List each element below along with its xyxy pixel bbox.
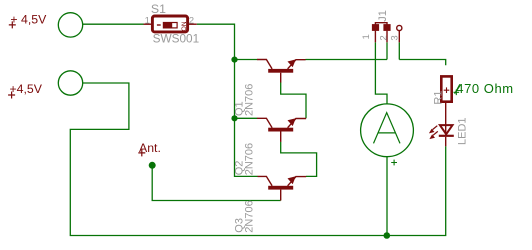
- svg-text:1: 1: [361, 34, 372, 39]
- svg-text:2: 2: [378, 35, 389, 40]
- svg-text:LED1: LED1: [456, 117, 468, 145]
- svg-text:R1: R1: [432, 91, 444, 105]
- svg-text:2N706: 2N706: [244, 143, 256, 175]
- svg-text:2N706: 2N706: [244, 84, 256, 116]
- svg-text:3: 3: [390, 35, 401, 40]
- svg-text:2: 2: [189, 15, 194, 26]
- svg-text:+ 4,5V: + 4,5V: [10, 13, 47, 27]
- svg-text:SWS001: SWS001: [153, 32, 200, 46]
- svg-text:2N706: 2N706: [244, 200, 256, 232]
- svg-text:+4,5V: +4,5V: [10, 82, 43, 96]
- svg-text:ON: ON: [181, 21, 188, 31]
- svg-text:S1: S1: [151, 2, 166, 16]
- svg-text:J1: J1: [377, 10, 389, 22]
- svg-text:470 Ohm: 470 Ohm: [456, 81, 513, 96]
- svg-text:Ant.: Ant.: [139, 141, 161, 155]
- svg-text:1: 1: [145, 15, 150, 26]
